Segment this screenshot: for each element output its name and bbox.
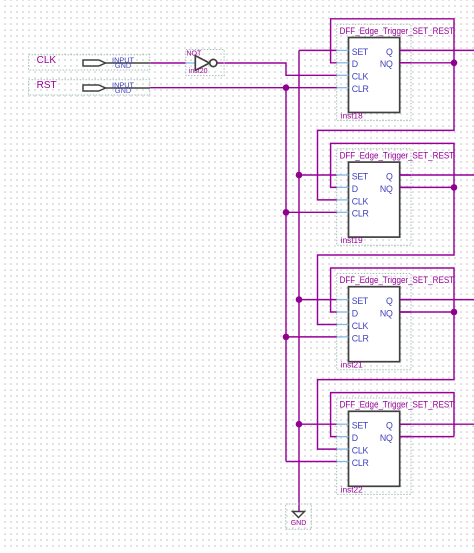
wire NQ output of inst18 xyxy=(400,62,454,64)
wire NQ feedback to D of inst22 xyxy=(331,393,454,437)
svg-text:D: D xyxy=(352,59,358,69)
svg-text:NQ: NQ xyxy=(380,184,393,194)
svg-text:GND: GND xyxy=(115,86,131,95)
svg-text:DFF_Edge_Trigger_SET_REST: DFF_Edge_Trigger_SET_REST xyxy=(340,400,455,410)
svg-text:CLR: CLR xyxy=(352,209,369,219)
flip-flop inst22 (DFF_Edge_Trigger_SET_REST) xyxy=(337,398,455,494)
svg-text:Q: Q xyxy=(386,421,393,431)
svg-text:NQ: NQ xyxy=(380,59,393,69)
wire RST vertical bus xyxy=(285,88,287,462)
wire NQ of inst21 to CLK of inst22 xyxy=(318,312,455,449)
svg-text:CLK: CLK xyxy=(352,446,369,456)
wire NQ of inst19 to CLK of inst21 xyxy=(318,187,455,324)
wire NQ output of inst22 xyxy=(400,436,454,438)
svg-text:SET: SET xyxy=(352,421,369,431)
svg-text:DFF_Edge_Trigger_SET_REST: DFF_Edge_Trigger_SET_REST xyxy=(340,150,455,160)
junction NQ bus inst18 xyxy=(451,60,458,67)
svg-text:D: D xyxy=(352,184,358,194)
svg-text:inst22: inst22 xyxy=(341,485,363,494)
wire SET bus to SET of inst22 xyxy=(299,423,337,425)
ground symbol GND xyxy=(286,504,312,529)
svg-text:DFF_Edge_Trigger_SET_REST: DFF_Edge_Trigger_SET_REST xyxy=(340,275,455,285)
svg-text:CLR: CLR xyxy=(352,333,369,343)
wire SET bus to SET of inst21 xyxy=(299,299,337,301)
svg-text:CLR: CLR xyxy=(352,84,369,94)
svg-text:NQ: NQ xyxy=(380,308,393,318)
wire Q output of inst19 xyxy=(400,174,474,176)
flip-flop inst21 (DFF_Edge_Trigger_SET_REST) xyxy=(337,273,455,369)
wire Q output of inst22 xyxy=(400,423,474,425)
wire RST bus to CLR of inst22 xyxy=(286,461,337,463)
svg-text:inst20: inst20 xyxy=(189,68,208,75)
wire SET vertical bus (GND net) xyxy=(298,50,300,511)
svg-text:GND: GND xyxy=(115,61,131,70)
svg-text:Q: Q xyxy=(386,47,393,57)
wire SET bus to SET of inst18 xyxy=(299,49,337,51)
input pin CLK xyxy=(29,55,150,70)
junction SET bus / SET inst22 xyxy=(296,421,303,428)
svg-text:CLK: CLK xyxy=(352,72,369,82)
junction SET bus / SET inst21 xyxy=(296,296,303,303)
wire RST pin to CLR of inst18 xyxy=(150,87,338,89)
svg-text:NQ: NQ xyxy=(380,433,393,443)
junction NQ bus inst19 xyxy=(451,184,458,191)
svg-text:GND: GND xyxy=(291,520,307,527)
junction RST bus / CLR inst19 xyxy=(283,209,290,216)
wire RST bus to CLR of inst21 xyxy=(286,336,337,338)
flip-flop inst18 (DFF_Edge_Trigger_SET_REST) xyxy=(337,24,455,120)
svg-text:RST: RST xyxy=(37,80,57,91)
wire CLK pin to NOT gate input xyxy=(150,62,187,64)
svg-text:DFF_Edge_Trigger_SET_REST: DFF_Edge_Trigger_SET_REST xyxy=(340,26,455,36)
svg-text:inst21: inst21 xyxy=(341,361,363,370)
wire NQ feedback to D of inst19 xyxy=(331,143,454,187)
svg-text:NOT: NOT xyxy=(187,51,203,58)
svg-text:inst19: inst19 xyxy=(341,236,363,245)
wire NQ feedback to D of inst21 xyxy=(331,268,454,312)
wire NOT output to CLK of inst18 xyxy=(217,63,337,75)
junction NQ bus inst21 xyxy=(451,309,458,316)
wire NQ output of inst21 xyxy=(400,311,454,313)
svg-text:inst18: inst18 xyxy=(341,112,363,121)
svg-text:CLK: CLK xyxy=(37,55,57,66)
wire RST bus to CLR of inst19 xyxy=(286,211,337,213)
junction RST bus / CLR inst21 xyxy=(283,334,290,341)
junction SET bus / SET inst19 xyxy=(296,172,303,179)
flip-flop inst19 (DFF_Edge_Trigger_SET_REST) xyxy=(337,149,455,245)
junction RST bus / CLR inst18 xyxy=(283,84,290,91)
svg-text:D: D xyxy=(352,308,358,318)
svg-text:CLR: CLR xyxy=(352,458,369,468)
svg-text:CLK: CLK xyxy=(352,196,369,206)
wire Q output of inst18 xyxy=(400,49,474,51)
svg-text:D: D xyxy=(352,433,358,443)
wire NQ feedback to D of inst18 xyxy=(331,19,454,63)
wire Q output of inst21 xyxy=(400,299,474,301)
svg-text:SET: SET xyxy=(352,296,369,306)
inverter inst20 (NOT) xyxy=(186,50,224,76)
svg-text:Q: Q xyxy=(386,171,393,181)
svg-text:CLK: CLK xyxy=(352,321,369,331)
wire SET bus to SET of inst19 xyxy=(299,174,337,176)
svg-text:Q: Q xyxy=(386,296,393,306)
wire NQ output of inst19 xyxy=(400,186,454,188)
svg-text:SET: SET xyxy=(352,171,369,181)
input pin RST xyxy=(29,80,150,95)
wire NQ of inst18 to CLK of inst19 xyxy=(318,63,455,200)
svg-text:SET: SET xyxy=(352,47,369,57)
